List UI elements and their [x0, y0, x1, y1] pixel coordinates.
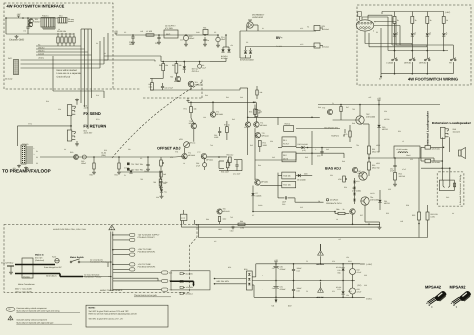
svg-text:10k: 10k: [203, 116, 206, 119]
dashed box 4W footswitch wiring: [357, 5, 471, 85]
wire cluster bottom rail: [150, 89, 196, 91]
ground preamp loom: [18, 165, 20, 166]
svg-text:+25V TO TUBE: +25V TO TUBE: [138, 248, 153, 251]
wire return down-left: [17, 126, 19, 146]
zener row left y172: [120, 171, 160, 173]
svg-text:FEEDBACK PATH: FEEDBACK PATH: [326, 202, 342, 205]
LED D12: [426, 33, 429, 36]
svg-text:R32: R32: [104, 149, 107, 152]
connector J2 header: [58, 18, 67, 24]
svg-text:FB1: FB1: [203, 27, 206, 30]
svg-text:C1: C1: [24, 30, 26, 33]
diode D40 1N4148: [301, 146, 304, 149]
svg-text:Denotes safety critical compon: Denotes safety critical component: [17, 307, 47, 310]
power flag +VE psu: [275, 262, 277, 264]
svg-text:P2: P2: [364, 28, 366, 31]
capacitor C9 10uF: [198, 64, 202, 68]
svg-text:1k0: 1k0: [163, 173, 166, 176]
svg-text:1u: 1u: [207, 39, 209, 42]
svg-text:R53: R53: [386, 212, 389, 215]
wire live to transformer: [80, 261, 108, 263]
capacitor C65 47pF: [235, 164, 238, 166]
svg-text:+VE: +VE: [274, 259, 279, 262]
svg-text:0.5W: 0.5W: [164, 181, 168, 184]
svg-text:(0V): (0V): [358, 284, 362, 287]
svg-text:D71: D71: [332, 290, 335, 293]
svg-text:1k: 1k: [183, 162, 185, 165]
resistor R55 10R output: [418, 212, 421, 220]
wire VAS mid y157: [207, 156, 227, 158]
diode D5: [183, 66, 186, 69]
svg-text:(+5V): (+5V): [445, 11, 450, 14]
svg-text:CLEAN: CLEAN: [386, 61, 393, 64]
svg-text:R49: R49: [342, 160, 345, 163]
svg-text:C93: C93: [364, 284, 367, 287]
fuse F1 mains: [55, 259, 59, 263]
lower transistor T21: [361, 197, 369, 205]
svg-text:10k: 10k: [260, 91, 263, 94]
dashed box Head Version Only: [437, 172, 464, 206]
resistor R1B 10k box: [282, 172, 296, 179]
svg-text:100k: 100k: [149, 85, 153, 88]
diode D61: [160, 189, 163, 192]
resistor R30 2k2: [93, 163, 95, 169]
svg-text:R1B 10k: R1B 10k: [283, 175, 290, 178]
wire mid bus y160: [255, 159, 296, 161]
svg-text:100uF: 100uF: [81, 162, 87, 165]
thick wire neutral white: [15, 273, 60, 275]
relay box K1: [282, 137, 296, 147]
svg-text:T70: T70: [322, 107, 325, 110]
svg-text:R50: R50: [344, 186, 347, 189]
power flag 0V mid: [187, 100, 189, 102]
lower output darlington T20: [359, 172, 367, 180]
transistor T6A MPSA92: [255, 180, 260, 185]
svg-text:TP1 TEST PIN: TP1 TEST PIN: [131, 163, 144, 166]
svg-text:BYA4x4: BYA4x4: [322, 46, 329, 49]
wire bus from header down: [42, 27, 44, 29]
wire PSU + rail: [256, 263, 360, 265]
ground C10: [132, 41, 134, 42]
power flag +VE: [378, 100, 380, 102]
dashed boundary supply region: [113, 88, 141, 90]
dashed diagonal break-off boundary: [112, 82, 202, 158]
svg-text:R10: R10: [46, 100, 49, 103]
svg-text:C20: C20: [58, 108, 61, 111]
svg-text:R20: R20: [70, 151, 73, 154]
svg-text:C70: C70: [317, 155, 320, 158]
svg-text:100uF: 100uF: [189, 37, 195, 40]
callout secondary tap RED: [162, 279, 168, 282]
svg-text:SK2: SK2: [8, 57, 12, 60]
wire +VE rail: [318, 104, 379, 106]
svg-text:R48: R48: [352, 122, 355, 125]
svg-text:These items not on pcb: These items not on pcb: [134, 294, 158, 297]
resistor R76 1k96: [238, 223, 245, 225]
svg-text:P3: P3: [376, 31, 378, 34]
svg-text:6k8: 6k8: [258, 111, 261, 114]
resistor R11 1k: [411, 12, 413, 17]
svg-text:PCB 8WM GPS/NP4: PCB 8WM GPS/NP4: [138, 251, 156, 254]
svg-text:MPSA92: MPSA92: [189, 122, 196, 125]
svg-text:TestPoint: TestPoint: [331, 135, 339, 138]
svg-text:D51: D51: [330, 174, 333, 177]
resistor R76 220R: [226, 162, 229, 168]
resistor network R1-R5: [57, 37, 59, 43]
capacitor C81 4700uF: [275, 281, 277, 287]
capacitor C10 100nF: [131, 36, 134, 38]
wire nested routing: [381, 12, 383, 15]
wire fanout from connector: [362, 16, 388, 18]
svg-text:+OV TO TUBE: +OV TO TUBE: [138, 263, 152, 266]
svg-text:0R22: 0R22: [376, 144, 380, 147]
svg-text:470uF: 470uF: [357, 271, 362, 274]
callout tab NP3: [130, 248, 135, 251]
thick secondary centre tap: [170, 280, 194, 282]
svg-text:BLK/BRN: BLK/BRN: [186, 272, 194, 275]
speaker LS1 icon: [459, 150, 462, 156]
svg-text:1k: 1k: [336, 218, 338, 221]
svg-text:BR1 25A 100V: BR1 25A 100V: [217, 280, 230, 283]
resistor R31: [118, 163, 120, 169]
transistor Q2 BC547: [28, 22, 32, 26]
svg-text:L2: L2: [402, 140, 404, 143]
svg-text:MAINS TRANSFORMER: MAINS TRANSFORMER: [100, 289, 123, 292]
regulator U3 78L15: [350, 269, 356, 275]
wire input to diff pair: [175, 156, 182, 159]
svg-text:D8 OA90B: D8 OA90B: [297, 179, 306, 182]
VAS transistor T72 MPSA92: [210, 112, 215, 117]
svg-text:header: header: [68, 20, 74, 23]
resistor R12 1k: [426, 12, 428, 17]
svg-text:OUT: OUT: [180, 39, 184, 42]
note approved type: [8, 316, 13, 320]
svg-text:R71: R71: [184, 108, 187, 111]
regulator U4 79L15: [350, 288, 356, 294]
resistor R69 predriver: [340, 107, 342, 112]
svg-text:MR756: MR756: [384, 118, 390, 121]
svg-text:P1: P1: [36, 150, 38, 153]
callout secondary tap YEL: [162, 288, 168, 291]
svg-text:DRIVE1: DRIVE1: [38, 49, 45, 52]
svg-text:T1 SEC: T1 SEC: [276, 45, 283, 48]
ground fx send sleeve: [76, 99, 78, 100]
svg-text:R45: R45: [305, 156, 308, 159]
bias preset VR2: [343, 176, 346, 182]
svg-text:0R22 5W: 0R22 5W: [372, 150, 380, 153]
svg-text:AC1: AC1: [300, 27, 303, 30]
svg-text:MR756: MR756: [382, 128, 388, 131]
svg-text:T77: T77: [197, 151, 200, 154]
svg-text:(Switched): (Switched): [35, 259, 44, 262]
svg-text:R47: R47: [346, 106, 349, 109]
svg-text:T4x: T4x: [164, 191, 167, 194]
svg-text:R66 1k2: R66 1k2: [227, 154, 234, 157]
wire terminal box to bridge: [215, 278, 247, 280]
pin stub wires: [27, 146, 34, 148]
svg-text:+: +: [262, 275, 263, 277]
svg-text:C41: C41: [244, 126, 247, 129]
svg-text:MR756: MR756: [384, 202, 390, 205]
svg-text:R42: R42: [232, 118, 235, 121]
mains switch symbol: [70, 261, 72, 263]
preset VR1 offset: [160, 160, 163, 166]
resistor R33 chain: [160, 171, 162, 177]
capacitor C60 470p: [161, 85, 164, 87]
resistor R5B 6k8: [254, 109, 257, 115]
svg-text:MPSA92: MPSA92: [216, 113, 223, 116]
svg-text:C7x 47pF: C7x 47pF: [233, 173, 240, 176]
resistor R61 10k: [175, 64, 178, 74]
wire secondary tap extra: [113, 277, 158, 279]
wire long mid rails: [311, 131, 313, 165]
svg-text:MPSA92: MPSA92: [261, 181, 268, 184]
svg-text:C2: C2: [124, 31, 126, 34]
wire trunk to fx return: [18, 125, 72, 127]
svg-text:R1C 10k: R1C 10k: [283, 184, 290, 187]
svg-text:CON10: CON10: [22, 143, 28, 146]
ferrite FB1: [203, 30, 208, 35]
current source T75 MPSA42: [255, 133, 260, 138]
jack J4 FX SEND: [67, 105, 72, 116]
resistor L1 10R: [146, 34, 154, 36]
svg-text:DRIVE2: DRIVE2: [419, 61, 427, 64]
power flag supply input: [115, 33, 117, 35]
svg-text:4W FOOTSWITCH INTERFACE: 4W FOOTSWITCH INTERFACE: [7, 3, 65, 8]
VAS transistor T73 MPSA92: [191, 123, 196, 128]
wire interface to supply cluster: [104, 55, 161, 57]
svg-text:10uH: 10uH: [406, 154, 411, 157]
callout tab NP4: [130, 253, 135, 256]
connector SK5 footswitch DIN: [356, 20, 374, 31]
svg-text:C55: C55: [388, 188, 391, 191]
svg-text:4700uF: 4700uF: [280, 288, 287, 291]
svg-text:R46: R46: [318, 106, 321, 109]
svg-text:On Case: On Case: [5, 78, 12, 81]
capacitor C11: [157, 36, 160, 38]
svg-text:MPSA92: MPSA92: [449, 285, 466, 290]
wire -VE vertical: [364, 205, 366, 222]
svg-text:(-15V): (-15V): [366, 298, 372, 301]
svg-text:10k: 10k: [179, 64, 182, 67]
wire speaker feed: [420, 157, 434, 159]
svg-text:Transformer Primary: Transformer Primary: [84, 276, 101, 279]
svg-text:T76: T76: [175, 151, 178, 154]
IEC inlet outline: [22, 258, 33, 278]
svg-text:VR2: VR2: [338, 178, 342, 181]
svg-text:P3: P3: [36, 156, 38, 159]
svg-text:1k: 1k: [446, 19, 448, 22]
capacitor C14 10uF: [217, 35, 219, 37]
svg-text:Must only be replaced with app: Must only be replaced with approved type: [17, 321, 55, 324]
svg-text:P5: P5: [36, 162, 38, 165]
svg-text:Internal Loudspeaker: Internal Loudspeaker: [426, 111, 429, 146]
resistor R77 7R5: [159, 179, 162, 186]
svg-text:7R5: 7R5: [140, 178, 143, 181]
svg-text:BYW54: BYW54: [221, 57, 227, 60]
svg-text:Chassis GND: Chassis GND: [9, 39, 24, 42]
svg-text:PCB 8WF GPS/NP7: PCB 8WF GPS/NP7: [138, 236, 155, 239]
bias diode string: [353, 181, 356, 183]
svg-text:R80: R80: [338, 271, 341, 274]
svg-text:Items within dashed: Items within dashed: [57, 69, 78, 72]
wire boxes left bus: [260, 184, 282, 186]
svg-text:ZeroPoint: ZeroPoint: [330, 199, 339, 202]
svg-text:R41: R41: [226, 96, 229, 99]
svg-text:R8x: R8x: [336, 208, 339, 211]
svg-text:T40: T40: [210, 144, 213, 147]
svg-text:JACK: JACK: [83, 107, 89, 110]
resistor R70 driver: [349, 131, 351, 137]
svg-text:C3: C3: [140, 157, 142, 160]
svg-text:10R 5W: 10R 5W: [399, 175, 406, 178]
resistor R75: [218, 217, 220, 222]
diode D71: [342, 291, 345, 294]
svg-text:1k: 1k: [415, 19, 417, 22]
diode D1 BYW54: [221, 49, 224, 52]
resistor R57 zobel upper: [394, 173, 397, 181]
svg-text:Crack-off pcb: Crack-off pcb: [57, 75, 71, 78]
svg-text:Set VR1 to give 0mV across LS+: Set VR1 to give 0mV across LS+, LS-: [89, 317, 124, 320]
svg-text:DRIVE1: DRIVE1: [404, 61, 412, 64]
svg-text:MC78M05CT: MC78M05CT: [252, 14, 265, 17]
LED D11: [411, 33, 414, 36]
svg-text:FX RLY: FX RLY: [283, 143, 290, 146]
callout tab NP5: [130, 263, 135, 266]
svg-text:1k: 1k: [397, 19, 399, 22]
resistor R13 1k: [443, 12, 445, 17]
capacitor C83 100nF: [292, 288, 295, 290]
svg-text:R73: R73: [249, 111, 252, 114]
svg-text:R43: R43: [250, 144, 253, 147]
svg-text:TP4: TP4: [356, 144, 359, 147]
svg-text:1k: 1k: [58, 28, 60, 31]
bridge rectifier BR1: [246, 271, 252, 290]
svg-text:R51: R51: [398, 130, 401, 133]
svg-text:YEL: YEL: [169, 288, 172, 291]
svg-text:BRN/BLK: BRN/BLK: [186, 292, 194, 295]
callout tab NP2: [130, 238, 135, 241]
svg-text:FX SEND: FX SEND: [83, 111, 100, 116]
svg-text:TR1 1k: TR1 1k: [190, 142, 196, 145]
svg-text:10k: 10k: [194, 108, 197, 111]
svg-text:R58: R58: [406, 204, 409, 207]
svg-text:6: 6: [373, 30, 374, 33]
svg-text:Head Version Only: Head Version Only: [459, 173, 462, 205]
connector J3 on-case 2x7: [14, 60, 19, 75]
output inductor L2 box: [394, 146, 420, 158]
svg-text:Chassis: Chassis: [23, 276, 30, 279]
diode D50 MR756: [377, 125, 380, 128]
svg-text:MPSA42: MPSA42: [206, 159, 213, 162]
svg-text:47nF: 47nF: [402, 168, 406, 171]
svg-text:T60: T60: [170, 76, 173, 79]
resistor R51 0R22 top: [368, 146, 371, 154]
bias transistor T18: [352, 167, 357, 172]
svg-text:C5: C5: [214, 31, 216, 34]
wire loop lower: [21, 59, 109, 61]
svg-text:VR1: VR1: [179, 138, 183, 141]
wire supply trunk y35: [116, 34, 218, 36]
svg-text:8V~: 8V~: [276, 36, 283, 40]
jack J5 FX RETURN: [67, 130, 72, 141]
wire output node: [368, 158, 370, 162]
svg-text:FX RETURN: FX RETURN: [83, 124, 106, 129]
svg-text:TO PREAMP/FX/LOOP: TO PREAMP/FX/LOOP: [2, 169, 51, 174]
wire supply cluster rail y61.5: [161, 61, 210, 63]
misc tiny reference labels: [36, 15, 455, 298]
wire 8V rail bottom: [246, 46, 317, 48]
relay box K2: [282, 152, 296, 162]
svg-text:+5V: +5V: [17, 13, 21, 16]
wire VAS top rail y102: [188, 101, 255, 103]
transistor T66 protect: [350, 209, 355, 214]
wire rows to connector: [36, 45, 81, 47]
capacitor C13 10nF: [284, 196, 286, 199]
diode D51 MR756: [378, 200, 381, 203]
resistor R71 10k: [190, 107, 193, 113]
svg-text:SK1: SK1: [59, 15, 63, 18]
svg-text:OPT/0.4: OPT/0.4: [192, 70, 199, 73]
svg-text:OA90: OA90: [258, 204, 262, 207]
svg-text:C40: C40: [240, 96, 243, 99]
wire fx send to return: [70, 116, 72, 130]
callout tab NP6: [130, 268, 135, 271]
svg-text:VR1: VR1: [170, 156, 173, 159]
svg-text:D20: D20: [270, 140, 273, 143]
svg-text:A1: A1: [104, 52, 106, 55]
wire y117 extension: [278, 116, 320, 118]
wire feedback rail y227: [181, 226, 380, 228]
capacitor C64 47uF: [203, 163, 207, 167]
svg-text:120V = T4AL 2A/4B: 120V = T4AL 2A/4B: [15, 290, 32, 293]
wire bundle down to fx jacks: [80, 46, 82, 103]
ground chassis: [16, 35, 18, 36]
resistor R72 1k: [226, 127, 229, 133]
diode D3: [244, 51, 247, 54]
svg-text:R68 1k: R68 1k: [285, 123, 291, 126]
mains transformer T1 winding bus: [110, 232, 112, 292]
svg-text:C50: C50: [384, 110, 387, 113]
svg-text:R61: R61: [172, 64, 175, 67]
svg-text:DC SUPPLY: DC SUPPLY: [165, 25, 176, 28]
svg-text:+VE: +VE: [377, 97, 382, 100]
svg-text:C42: C42: [272, 156, 275, 159]
resistor R1C 10k box: [282, 182, 296, 188]
capacitor C31 1uF: [146, 163, 149, 165]
svg-text:Mains Transformer: Mains Transformer: [18, 283, 35, 286]
svg-text:C43: C43: [326, 148, 329, 151]
svg-text:Mains Switch: Mains Switch: [70, 256, 85, 259]
resistor R5C top: [256, 90, 258, 95]
wire VAS vertical x255: [254, 128, 256, 180]
diode D4: [249, 51, 252, 54]
svg-text:FX1: FX1: [28, 122, 31, 125]
wire top rail: [382, 11, 444, 13]
resistor R10 1k: [394, 12, 396, 17]
svg-text:1k96: 1k96: [218, 228, 222, 231]
resistor R52 0R22 bottom: [368, 162, 371, 170]
svg-text:YEL/GRN: YEL/GRN: [186, 286, 194, 289]
svg-text:BR1: BR1: [244, 268, 248, 271]
wire head jack feed: [421, 167, 450, 169]
wire led bus: [388, 50, 448, 52]
output darlington T19 TIP: [356, 116, 364, 124]
svg-text:1k: 1k: [430, 19, 432, 22]
diode D8 OA90B: [298, 174, 301, 177]
diode D2 BYW54: [227, 49, 230, 52]
wire protect line y211.5: [253, 211, 335, 213]
